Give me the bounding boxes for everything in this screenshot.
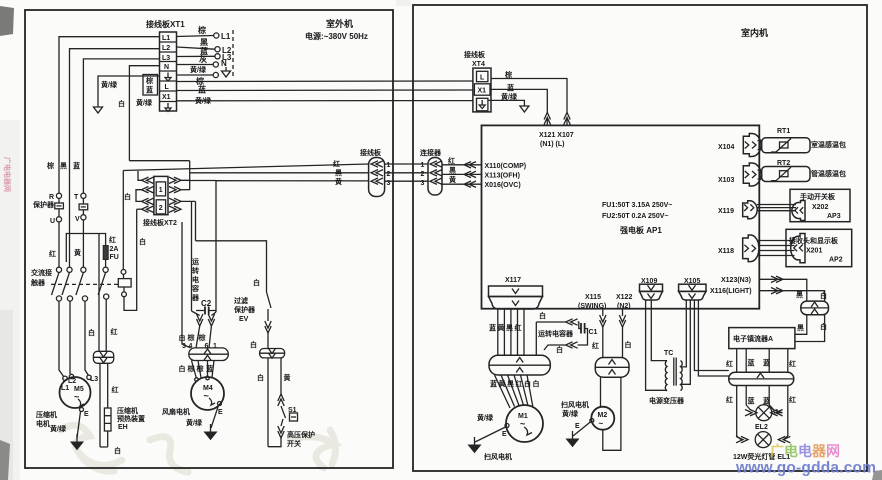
contactor linkage dashed line [51, 283, 120, 285]
svg-text:管温感温包: 管温感温包 [811, 169, 846, 178]
white wire down to plug [98, 234, 100, 352]
svg-text:EH: EH [118, 424, 128, 431]
manual switch board AP3 box [790, 189, 850, 221]
svg-text:E: E [575, 423, 580, 430]
svg-text:黑: 黑 [797, 323, 804, 332]
svg-text:黄/绿: 黄/绿 [50, 424, 67, 433]
svg-text:手动开关板: 手动开关板 [800, 192, 836, 201]
svg-text:压缩机: 压缩机 [117, 406, 138, 415]
XT4 L wire to X107 [491, 79, 567, 113]
indoor unit enclosure box [413, 5, 867, 471]
svg-text:白: 白 [539, 311, 546, 320]
svg-text:2: 2 [387, 171, 391, 178]
jumper bracket with wire colours [143, 75, 158, 96]
svg-text:FU2:50T 0.2A 250V~: FU2:50T 0.2A 250V~ [602, 213, 668, 220]
svg-text:红: 红 [111, 327, 118, 336]
svg-text:L: L [480, 75, 485, 82]
svg-text:(SWING): (SWING) [578, 303, 606, 310]
XT4 X1 wire to X121 [490, 89, 547, 112]
svg-text:接收头和显示板: 接收头和显示板 [789, 236, 839, 245]
svg-text:白: 白 [625, 340, 632, 349]
svg-text:红: 红 [109, 235, 116, 244]
svg-text:X118: X118 [718, 248, 734, 255]
svg-text:E: E [502, 431, 507, 438]
connector X118 [743, 235, 759, 262]
svg-text:白: 白 [179, 333, 186, 342]
svg-text:L: L [165, 84, 170, 91]
svg-text:白: 白 [114, 446, 121, 455]
svg-text:黄/绿: 黄/绿 [136, 98, 153, 107]
svg-text:过滤: 过滤 [234, 296, 248, 305]
svg-text:www.go-gdda.com: www.go-gdda.com [735, 460, 876, 477]
M4 earth [218, 402, 222, 406]
svg-text:白: 白 [124, 192, 131, 201]
svg-text:L3: L3 [90, 376, 98, 383]
svg-text:(N1) (L): (N1) (L) [540, 141, 565, 148]
svg-text:红: 红 [333, 159, 340, 168]
svg-text:黑: 黑 [60, 161, 67, 170]
svg-text:接线板: 接线板 [464, 50, 486, 59]
svg-text:黄/绿: 黄/绿 [186, 418, 203, 427]
svg-text:黄: 黄 [498, 323, 505, 332]
svg-text:触器: 触器 [30, 278, 46, 287]
svg-text:电子镇流器A: 电子镇流器A [733, 334, 773, 343]
svg-text:黄/绿: 黄/绿 [101, 80, 118, 89]
X117 connector body [489, 286, 543, 309]
svg-text:X202: X202 [812, 204, 828, 211]
svg-text:转: 转 [192, 266, 199, 275]
C2 capacitor plates [205, 307, 209, 315]
terminal circle L2 [215, 47, 220, 52]
svg-text:棕: 棕 [504, 70, 512, 79]
svg-text:保护器: 保护器 [233, 305, 256, 314]
coil return wire to XT2 terminal 2 [124, 209, 137, 310]
svg-text:X119: X119 [718, 208, 734, 215]
svg-text:N: N [164, 64, 169, 71]
filter protector switch [267, 292, 272, 308]
svg-text:AP3: AP3 [827, 213, 841, 220]
svg-text:FU1:50T 3.15A 250V~: FU1:50T 3.15A 250V~ [602, 202, 672, 209]
mainboard AP1 box [482, 125, 760, 308]
red wire from contactor pole 4 down [105, 299, 107, 351]
svg-text:黄/绿: 黄/绿 [501, 92, 518, 101]
AP2 receiving connector [791, 234, 805, 263]
svg-text:X1: X1 [162, 94, 171, 101]
svg-text:红: 红 [726, 359, 733, 368]
svg-text:蓝: 蓝 [489, 323, 496, 332]
M5 terminal circles [63, 376, 67, 380]
contactor coil box [118, 279, 131, 287]
svg-text:红: 红 [516, 379, 523, 388]
svg-text:蓝: 蓝 [490, 379, 497, 388]
ground symbol left of XT1 [94, 103, 103, 113]
svg-text:接线板XT1: 接线板XT1 [146, 19, 185, 29]
ground symbol [520, 102, 529, 112]
svg-text:黄/绿: 黄/绿 [195, 96, 212, 105]
svg-text:X1: X1 [478, 88, 487, 95]
svg-text:室温感温包: 室温感温包 [811, 140, 846, 149]
AP3 receiving connector [792, 201, 805, 221]
indoor fan motor M1 [506, 405, 543, 442]
XT2-1 left wire to coil line [138, 171, 142, 180]
svg-text:L1: L1 [61, 385, 69, 392]
swing motor plug [595, 358, 629, 378]
svg-text:室外机: 室外机 [326, 18, 353, 29]
XT2 body [154, 176, 168, 214]
svg-text:红: 红 [49, 249, 56, 258]
svg-text:X016(OVC): X016(OVC) [485, 182, 521, 189]
svg-text:棕: 棕 [196, 364, 204, 373]
wires plug to fan motor [192, 361, 215, 379]
contactor pole 4 (aux) [103, 267, 108, 272]
wire XT2 row A right riser to N line [129, 161, 189, 190]
wire L3 to terminal [177, 55, 216, 57]
svg-text:FU: FU [110, 254, 119, 261]
svg-text:1: 1 [387, 162, 391, 169]
svg-text:红: 红 [112, 385, 119, 394]
connector X109 [640, 284, 663, 300]
svg-text:广电电器网: 广电电器网 [3, 157, 12, 192]
indoor fan plug connector [489, 355, 550, 375]
svg-text:红: 红 [448, 156, 455, 165]
lamp EL2 [746, 405, 750, 410]
svg-text:白: 白 [533, 379, 540, 388]
svg-text:电机: 电机 [36, 419, 50, 428]
svg-text:蓝: 蓝 [198, 85, 206, 95]
wires below EV plug [267, 358, 269, 447]
long wire XT1.PE to XT4 (yellow/green) [177, 100, 473, 102]
wire pole3 to M5 L3 [85, 301, 89, 375]
wires below plug [737, 386, 788, 437]
M2 earth [590, 419, 594, 423]
svg-text:扫风电机: 扫风电机 [561, 400, 589, 409]
wire L2 to terminal [177, 47, 216, 49]
svg-text:L2: L2 [162, 45, 170, 52]
terminal circle N [213, 62, 218, 67]
svg-text:棕: 棕 [46, 161, 54, 170]
svg-text:黄/绿: 黄/绿 [562, 409, 579, 418]
svg-text:L1: L1 [162, 35, 170, 42]
svg-text:RT1: RT1 [777, 128, 790, 135]
XT2 plug chevrons right [169, 177, 181, 183]
svg-text:黑: 黑 [507, 379, 514, 388]
electronic ballast A box [729, 328, 795, 349]
connector pill [428, 158, 442, 196]
svg-text:(N2): (N2) [617, 303, 631, 310]
svg-text:白: 白 [257, 373, 264, 382]
svg-text:X113(OFH): X113(OFH) [485, 173, 520, 180]
swing motor M2 [591, 407, 614, 430]
terminal circle L3 [215, 54, 220, 59]
svg-text:白: 白 [118, 99, 125, 108]
svg-text:蓝: 蓝 [748, 358, 755, 367]
svg-text:保护器: 保护器 [32, 200, 55, 209]
white wire into fan plug [182, 222, 191, 348]
svg-text:黄: 黄 [335, 177, 342, 186]
svg-text:黑: 黑 [200, 37, 208, 47]
svg-text:红: 红 [515, 323, 522, 332]
svg-text:N: N [221, 59, 227, 68]
svg-text:2A: 2A [110, 246, 119, 253]
svg-text:容: 容 [191, 284, 199, 293]
transformer tap wires to lamp plug [694, 300, 728, 377]
wires from AP1 bottom [602, 309, 604, 316]
svg-text:风扇电机: 风扇电机 [162, 407, 190, 416]
six wires to motor [495, 375, 534, 408]
receiver and display board AP2 box [786, 229, 852, 266]
lamp plug connector [729, 372, 794, 385]
svg-text:X103: X103 [718, 177, 734, 184]
XT2 left jumper 1-2 [136, 190, 142, 202]
tap wire feeding fuse [66, 234, 105, 263]
svg-text:预热装置: 预热装置 [117, 414, 145, 423]
svg-text:2: 2 [421, 171, 425, 178]
svg-text:接线板XT2: 接线板XT2 [143, 218, 177, 227]
svg-text:E: E [84, 411, 89, 418]
svg-text:蓝: 蓝 [146, 85, 153, 94]
XT4 PE wire to ground [488, 100, 524, 102]
terminal circle PE [213, 72, 218, 77]
svg-text:灰: 灰 [199, 54, 207, 64]
terminal board XT1 body [160, 32, 177, 112]
svg-text:X110(COMP): X110(COMP) [485, 163, 527, 170]
svg-text:AP2: AP2 [829, 257, 843, 264]
wire V down to contactor [82, 220, 84, 267]
svg-text:黄/绿: 黄/绿 [190, 65, 207, 74]
EV plug connector [260, 349, 285, 358]
svg-text:C2: C2 [201, 299, 212, 308]
wires into ballast [795, 315, 825, 342]
svg-text:白: 白 [820, 322, 827, 331]
svg-text:3: 3 [182, 343, 186, 350]
long wire XT1.X1 to XT4 (blue) [177, 89, 473, 92]
svg-text:电源:~380V 50Hz: 电源:~380V 50Hz [305, 31, 368, 41]
dashed separator line [232, 30, 234, 78]
fuse to pole 4 [105, 260, 107, 268]
black wire to middle terminal strip [190, 172, 369, 174]
svg-text:红: 红 [789, 395, 796, 404]
svg-text:蓝: 蓝 [507, 83, 514, 92]
svg-text:白: 白 [139, 237, 146, 246]
wire PE to terminal [177, 74, 214, 76]
svg-text:EV: EV [239, 316, 249, 323]
wire L1 left drop [59, 37, 160, 193]
svg-text:红: 红 [592, 341, 599, 350]
connector X105 [679, 284, 706, 300]
wire N left drop [129, 66, 159, 161]
compressor motor M5 circle [60, 377, 91, 408]
wires out of AP1 to lamp plug [759, 279, 807, 301]
svg-text:蓝: 蓝 [73, 161, 80, 170]
svg-text:白: 白 [524, 379, 531, 388]
contactor pole 1 [56, 267, 61, 272]
svg-text:T: T [74, 194, 79, 201]
wire PE left to ground [98, 76, 160, 103]
wire to filter protector [196, 241, 267, 292]
svg-text:黑: 黑 [796, 290, 803, 299]
svg-text:室内机: 室内机 [741, 27, 768, 38]
svg-text:黄: 黄 [284, 373, 291, 382]
svg-text:1: 1 [213, 343, 217, 350]
svg-text:强电板 AP1: 强电板 AP1 [620, 225, 662, 235]
high pressure switch S1 [278, 394, 284, 406]
svg-text:白: 白 [253, 278, 260, 287]
svg-text:L1: L1 [221, 32, 231, 41]
wire N to terminal [177, 64, 214, 66]
M5 earth terminal [80, 408, 84, 412]
svg-text:连接器: 连接器 [420, 148, 442, 157]
contactor pole 3 [81, 267, 86, 272]
fan motor terminal circles [195, 378, 199, 382]
crossover wires between units [385, 164, 428, 181]
svg-text:L3: L3 [162, 55, 170, 62]
svg-text:X115: X115 [585, 294, 601, 301]
red wire to middle terminal strip [123, 164, 368, 171]
heater plug connector [93, 351, 113, 363]
svg-text:蓝: 蓝 [763, 358, 770, 367]
svg-text:运转电容器: 运转电容器 [538, 329, 574, 338]
wire pole1 to M5 L1 [59, 301, 64, 377]
svg-text:开关: 开关 [287, 439, 301, 448]
svg-text:XT4: XT4 [472, 61, 485, 68]
svg-text:红: 红 [726, 395, 733, 404]
svg-text:棕: 棕 [198, 333, 206, 342]
svg-text:3: 3 [421, 180, 425, 187]
transformer secondary wires [681, 300, 690, 385]
svg-text:X116(LIGHT): X116(LIGHT) [710, 288, 752, 295]
wire L1 to terminal [177, 36, 214, 37]
svg-text:蓝: 蓝 [748, 396, 755, 405]
fan motor plug connector [189, 348, 229, 361]
svg-text:接线板: 接线板 [360, 148, 382, 157]
svg-text:U: U [50, 218, 55, 225]
lamp EL1 [737, 436, 741, 440]
svg-text:X201: X201 [806, 248, 822, 255]
svg-text:交流接: 交流接 [31, 268, 52, 277]
svg-text:棕: 棕 [187, 333, 195, 342]
svg-text:黄/绿: 黄/绿 [477, 413, 494, 422]
M5 ground symbol [71, 434, 83, 450]
svg-text:R: R [49, 194, 54, 201]
svg-text:黄: 黄 [449, 175, 456, 184]
svg-text:电源变压器: 电源变压器 [649, 396, 685, 405]
plug arrows into AP1 [544, 113, 550, 125]
terminal circle L1 [214, 33, 219, 38]
M1 earth [505, 424, 509, 428]
svg-text:棕: 棕 [195, 76, 204, 86]
protector device 2 [82, 198, 84, 204]
svg-text:白: 白 [556, 345, 563, 354]
ribbon cable to AP2 [758, 241, 795, 256]
svg-text:红: 红 [789, 359, 796, 368]
wires to M2 [600, 377, 602, 407]
svg-text:白: 白 [820, 291, 827, 300]
connector X119 [743, 201, 758, 219]
svg-text:棕: 棕 [187, 364, 195, 373]
terminal strip pill [369, 158, 385, 197]
svg-text:蓝: 蓝 [763, 396, 770, 405]
svg-text:~: ~ [204, 391, 209, 401]
C2 wires with plug arrows into fan plug [192, 311, 200, 316]
XT2 plug chevrons left [142, 177, 154, 183]
svg-text:白: 白 [88, 328, 95, 337]
coil feed wire from XT2 terminal 1 [122, 171, 124, 270]
plug arrows [265, 321, 271, 333]
svg-text:黑: 黑 [449, 166, 456, 175]
ground symbol right of PE terminal [222, 67, 231, 77]
svg-text:2: 2 [159, 205, 163, 212]
wires to RT1 [758, 141, 762, 150]
svg-text:棕: 棕 [197, 25, 206, 35]
svg-text:C1: C1 [589, 329, 598, 336]
heater element EH [104, 408, 111, 431]
transformer primary wires [646, 300, 665, 391]
ballast output wires [737, 349, 788, 373]
fuse FU body [103, 246, 108, 260]
XT4 body [473, 68, 491, 112]
svg-text:白: 白 [179, 364, 186, 373]
svg-text:M2: M2 [598, 412, 608, 419]
svg-text:运: 运 [192, 258, 200, 266]
ribbon cable to AP3 [757, 205, 796, 211]
svg-text:压缩机: 压缩机 [36, 410, 57, 419]
outdoor unit enclosure box [25, 10, 393, 468]
wires connector to mainboard AP1 [442, 165, 482, 184]
svg-text:X117: X117 [505, 277, 521, 284]
svg-text:电: 电 [192, 275, 199, 284]
svg-text:X104: X104 [718, 144, 734, 151]
svg-text:X123(N3): X123(N3) [721, 277, 751, 284]
svg-text:黑: 黑 [506, 323, 513, 332]
yellow wire to middle terminal strip [216, 180, 369, 182]
svg-text:蓝: 蓝 [206, 364, 213, 373]
row C branches [181, 201, 196, 311]
svg-text:X122: X122 [616, 294, 632, 301]
svg-text:~: ~ [74, 392, 79, 402]
svg-text:黑: 黑 [335, 168, 342, 177]
wire L3 left drop [83, 59, 159, 193]
heater leads [100, 363, 108, 447]
wire pole2 to M5 L2 [69, 301, 71, 374]
svg-text:EL2: EL2 [755, 424, 768, 431]
lamp supply plug [801, 301, 829, 315]
wire U down to contactor [58, 222, 60, 267]
svg-text:1: 1 [159, 187, 163, 194]
long wire XT1.L to XT4 (brown) [177, 80, 473, 83]
contactor pole 2 [67, 267, 72, 272]
svg-text:V: V [75, 216, 80, 223]
C1 plates [581, 323, 585, 334]
svg-text:E: E [218, 409, 223, 416]
svg-text:~: ~ [599, 419, 604, 428]
svg-text:棕: 棕 [145, 76, 153, 85]
svg-text:1: 1 [421, 162, 425, 169]
svg-text:TC: TC [664, 350, 673, 357]
svg-text:广电电器网: 广电电器网 [770, 443, 840, 459]
svg-text:黄: 黄 [74, 248, 81, 257]
yellow wire via fan branch [190, 181, 216, 313]
five wires down [498, 310, 524, 356]
svg-text:扫风电机: 扫风电机 [484, 452, 512, 461]
protector device 1 [58, 198, 60, 203]
svg-text:黄: 黄 [499, 379, 506, 388]
svg-text:X121 X107: X121 X107 [539, 132, 574, 139]
svg-text:器: 器 [191, 293, 200, 302]
svg-text:白: 白 [250, 340, 257, 349]
svg-text:高压保护: 高压保护 [287, 430, 315, 439]
wire L2 left drop [70, 49, 160, 267]
fan motor M4 circle [191, 377, 224, 410]
